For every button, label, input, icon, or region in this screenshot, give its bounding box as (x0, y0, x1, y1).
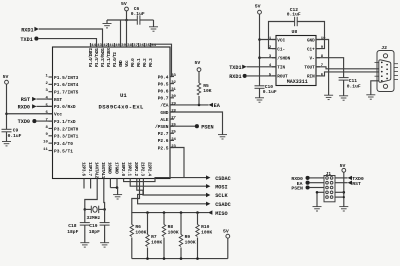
wire P2.5 pin 23 down to CSDAC row (170, 148, 184, 178)
svg-text:39: 39 (121, 44, 126, 48)
svg-text:MOSI: MOSI (215, 184, 227, 190)
node MOSI port (206, 184, 228, 190)
svg-text:TOUT: TOUT (304, 66, 315, 71)
svg-text:P3.3/INT1: P3.3/INT1 (54, 134, 79, 140)
wire P3.6 stub (83, 179, 85, 189)
ic U1 right pins 33-23 (155, 74, 177, 151)
junction rail R10 (196, 257, 199, 260)
capacitor C9 0.1uF (2, 128, 22, 140)
power 5V above MAX3311 (255, 4, 262, 86)
junction crystal left (84, 208, 87, 211)
svg-text:P0.1: P0.1 (137, 58, 142, 67)
wire RIN pin 6 to J2 (316, 72, 379, 76)
svg-text:CSADC: CSADC (215, 202, 231, 208)
node CSDAC port (206, 175, 231, 181)
wire GND pins 16 17 (110, 179, 117, 188)
node RXD1 port at MAX3311 (229, 74, 247, 80)
ground below C10 (255, 98, 264, 102)
wire EA to J1 pin3 (309, 182, 323, 184)
svg-text:U8: U8 (292, 29, 298, 35)
svg-text:ROUT: ROUT (277, 75, 288, 80)
junction VCC row (258, 38, 261, 41)
svg-text:10: 10 (321, 37, 326, 41)
svg-text:22P2.4: 22P2.4 (146, 162, 151, 176)
svg-text:R5: R5 (203, 83, 209, 89)
ground below J1 left (313, 207, 322, 211)
svg-text:EA: EA (214, 103, 221, 109)
svg-text:100K: 100K (151, 240, 162, 246)
wire TXD1 to TIN pin 4 (247, 66, 276, 68)
junction J1 pin7 (316, 191, 319, 194)
svg-text:C1-: C1- (277, 47, 285, 52)
junction rail R7 (146, 257, 149, 260)
wire 5V to /SHDN pin 3 (260, 57, 277, 59)
svg-text:25: 25 (171, 131, 176, 135)
crystal Y1 32MHz (85, 206, 105, 221)
svg-text:26: 26 (171, 124, 176, 128)
node RXD0 port at J1 (291, 176, 309, 182)
svg-text:17GND: 17GND (113, 162, 118, 174)
junction Vcc row (5, 112, 8, 115)
svg-text:P1.1/T2EX: P1.1/T2EX (107, 48, 112, 67)
svg-text:5V: 5V (3, 74, 9, 80)
node RST port at J1 (348, 181, 361, 187)
wire XTAL2 to crystal (85, 179, 97, 210)
svg-text:SCLK: SCLK (215, 193, 228, 199)
svg-text:/SHDN: /SHDN (277, 57, 290, 62)
wire GND pin 10 to ground (316, 40, 329, 96)
wire rail left drop (106, 20, 108, 24)
svg-text:P2.6: P2.6 (158, 138, 169, 144)
power 5V at J1 (340, 163, 346, 206)
svg-text:P3.1/TxD: P3.1/TxD (54, 119, 76, 125)
svg-text:41: 41 (109, 44, 114, 48)
node PSEN port at J1 (291, 185, 309, 191)
wire V- pin 8 to C11 (316, 58, 344, 78)
svg-text:PSEN: PSEN (291, 186, 303, 192)
svg-text:20P2.2: 20P2.2 (133, 162, 138, 176)
junction MISO row R7 (146, 211, 149, 214)
wire P2.1 to MOSI (130, 179, 206, 187)
svg-text:36: 36 (139, 44, 144, 48)
svg-text:P3.5/T1: P3.5/T1 (54, 148, 73, 154)
wire P2.0 to CSDAC (124, 178, 206, 182)
svg-text:37: 37 (133, 44, 138, 48)
svg-text:/PSEN: /PSEN (155, 124, 169, 130)
wire J1 pin10 stub (336, 196, 345, 198)
wire C1- loop left (269, 22, 295, 49)
power 5V above R5 (195, 60, 201, 71)
svg-text:28: 28 (171, 109, 176, 113)
svg-text:P0.6: P0.6 (158, 89, 169, 95)
ground left of C6 (103, 24, 112, 28)
svg-text:P0.0: P0.0 (131, 58, 136, 67)
svg-text:CSDAC: CSDAC (215, 176, 231, 182)
svg-text:P1.2/RxD1: P1.2/RxD1 (101, 48, 106, 67)
svg-text:P0.5: P0.5 (158, 81, 169, 87)
svg-text:U1: U1 (120, 92, 127, 99)
svg-text:MISO: MISO (215, 211, 227, 217)
wire GND pin 39 column (120, 20, 122, 47)
wire P0.3 pin34 to P0.4 pin33 (151, 44, 172, 76)
resistor R10 100K (196, 213, 213, 259)
svg-text:GND: GND (119, 60, 124, 67)
svg-text:18pF: 18pF (67, 229, 78, 235)
svg-text:100K: 100K (168, 230, 179, 236)
svg-text:MAX3311: MAX3311 (287, 79, 308, 85)
svg-text:12P3.6: 12P3.6 (80, 162, 85, 176)
svg-text:100K: 100K (185, 240, 196, 246)
svg-text:31: 31 (171, 88, 176, 92)
wire PSEN to J1 pin5 (309, 187, 323, 189)
svg-text:P2.5: P2.5 (158, 145, 169, 151)
svg-text:TIN: TIN (277, 66, 285, 71)
node TXD0 port at J1 (348, 176, 364, 182)
node EA port at J1 (297, 181, 310, 187)
capacitor C12 0.1uF (287, 7, 301, 26)
wire P2.3 to CSADC (138, 179, 206, 204)
svg-text:100K: 100K (135, 230, 146, 236)
svg-text:18P2.0: 18P2.0 (120, 162, 125, 176)
node SCLK port (206, 193, 229, 199)
wire /EA pin 29 net (170, 104, 209, 106)
svg-text:10: 10 (43, 141, 48, 145)
ic U1 bottom pins 12-22 (80, 162, 151, 179)
wire C9 to ground (6, 132, 8, 142)
svg-text:R6: R6 (135, 224, 141, 230)
connector J1 header 2x5 (324, 172, 335, 202)
wire pull-up rail (132, 258, 228, 260)
svg-text:RST: RST (54, 97, 62, 103)
svg-text:24: 24 (171, 138, 176, 142)
node CSADC port (206, 202, 231, 208)
capacitor C11 0.1uF (339, 78, 361, 96)
svg-text:TXD1: TXD1 (20, 37, 32, 43)
wire GND pin 28 to ground (170, 112, 223, 135)
ground below C19 (100, 243, 109, 247)
svg-text:RXD1: RXD1 (21, 27, 33, 33)
svg-text:ALE: ALE (160, 117, 168, 123)
ground below U1 (113, 195, 122, 199)
resistor R8 100K (162, 213, 179, 259)
svg-text:19P2.1: 19P2.1 (127, 162, 132, 176)
wire GND to ground symbol (117, 188, 119, 195)
resistor R7 100K (146, 213, 163, 259)
resistor R9 100K (179, 213, 196, 259)
wire XTAL1 to crystal (103, 179, 106, 210)
svg-text:RST: RST (21, 97, 30, 103)
junction EA and R5 (198, 104, 201, 107)
svg-text:Vcc: Vcc (125, 60, 130, 67)
node PSEN port (195, 124, 214, 130)
wire 5V to VCC pin 1 (260, 39, 277, 41)
svg-text:15XTAL1: 15XTAL1 (100, 162, 105, 179)
svg-text:29: 29 (171, 102, 176, 106)
ground below C18 (80, 243, 89, 247)
junction J1 5V (343, 191, 346, 194)
svg-text:TXD1: TXD1 (229, 65, 241, 71)
wire TXD0 to pin 7 (36, 120, 52, 122)
svg-text:V-: V- (310, 57, 315, 62)
capacitor C6 0.1uF (131, 6, 145, 25)
svg-text:43: 43 (97, 44, 102, 48)
node MISO port (208, 210, 228, 216)
ground below J2 (366, 95, 375, 99)
svg-text:P0.2: P0.2 (143, 58, 148, 67)
wire J1 pin8 stub (336, 191, 344, 193)
svg-text:R7: R7 (151, 234, 157, 240)
svg-text:DS89C4x0-ExL: DS89C4x0-ExL (99, 104, 145, 111)
wire TXD0 to J1 pin2 (336, 177, 348, 179)
capacitor C19 18pF (89, 209, 110, 242)
wire P2.2 to SCLK (137, 179, 206, 196)
svg-text:11: 11 (43, 148, 48, 152)
svg-text:P2.7: P2.7 (158, 131, 169, 137)
junction 5V rail (125, 19, 128, 22)
svg-text:R10: R10 (201, 224, 210, 230)
svg-text:21P2.3: 21P2.3 (140, 162, 145, 176)
junction rail R9 (180, 257, 183, 260)
wire 5V to Vcc pin 6 (7, 113, 53, 115)
node TXD1 port top-left (20, 37, 38, 43)
svg-text:P3.4/T0: P3.4/T0 (54, 141, 73, 147)
svg-text:P1.5/INT3: P1.5/INT3 (54, 75, 79, 81)
junction SHDN row (258, 56, 261, 59)
node RXD0 port (18, 104, 37, 110)
svg-text:23: 23 (171, 145, 176, 149)
ground below C11 (339, 96, 348, 100)
node EA port (209, 103, 221, 109)
junction rail R8 (163, 257, 166, 260)
wire RST to pin 4 (37, 98, 53, 100)
ic U1 top pins 44-34 (89, 43, 156, 67)
svg-text:30: 30 (171, 95, 176, 99)
svg-text:VCC: VCC (277, 38, 285, 43)
op-amp U8 MAX3311 transceiver (269, 29, 326, 85)
capacitor C18 18pF (67, 209, 90, 242)
ground right of C6 (149, 27, 158, 31)
svg-text:C18: C18 (68, 223, 77, 229)
svg-text:GND: GND (160, 110, 168, 116)
node RST port (21, 97, 37, 103)
wire C12 to C1+ pin 9 (297, 22, 324, 49)
resistor R5 10K (197, 72, 212, 105)
svg-text:C1+: C1+ (307, 47, 315, 52)
wire RXD1 to P1.2/RxD1 pin 42 (39, 29, 103, 47)
svg-text:P3.0/RxD: P3.0/RxD (54, 104, 76, 110)
wire RXD0 to J1 pin1 (309, 177, 323, 179)
svg-text:40: 40 (115, 44, 120, 48)
svg-text:Vcc: Vcc (54, 112, 62, 118)
wire RXD0 to pin 5 (37, 105, 53, 107)
svg-text:16GND: 16GND (107, 162, 112, 174)
svg-text:C9: C9 (13, 128, 19, 134)
svg-text:P1.0/T2: P1.0/T2 (113, 52, 118, 67)
svg-text:38: 38 (127, 44, 132, 48)
op-amp U1 microcontroller DS89C4x0 body (53, 47, 171, 179)
svg-text:14XTAL2: 14XTAL2 (94, 162, 99, 179)
svg-text:0.1uF: 0.1uF (263, 89, 277, 95)
wire P2.4 to MISO (132, 179, 209, 213)
svg-text:P1.4/INT2: P1.4/INT2 (89, 48, 94, 67)
wire RXD1 to ROUT pin 5 (247, 75, 276, 77)
svg-text:5V: 5V (255, 4, 261, 10)
ground below C9 (2, 142, 11, 146)
ic U1 left pins 1-11 (43, 74, 78, 154)
svg-text:0.1uF: 0.1uF (8, 133, 22, 139)
wire rail right drop (153, 20, 155, 27)
power 5V above U1 (121, 1, 128, 20)
svg-text:42: 42 (103, 44, 108, 48)
svg-text:13P3.7: 13P3.7 (87, 162, 92, 176)
connector J2 DB9 (375, 45, 399, 91)
ground below J1 right (339, 207, 348, 211)
svg-text:P3.2/INT0: P3.2/INT0 (54, 126, 79, 132)
svg-text:TXD0: TXD0 (18, 119, 30, 125)
wire J1 pin7 to ground (317, 192, 324, 206)
junction MISO row R9 (180, 211, 183, 214)
junction GND pins (116, 186, 119, 189)
svg-text:100K: 100K (201, 230, 212, 236)
svg-text:32MHz: 32MHz (87, 215, 101, 221)
svg-text:44: 44 (91, 44, 96, 48)
svg-text:P0.4: P0.4 (158, 74, 169, 80)
node RXD1 port top-left (21, 27, 39, 34)
wire /PSEN pin 26 net (170, 125, 195, 127)
svg-text:C19: C19 (89, 223, 98, 229)
svg-text:C11: C11 (349, 78, 358, 84)
power 5V left (3, 74, 9, 129)
svg-text:RXD1: RXD1 (229, 74, 241, 80)
svg-text:5V: 5V (195, 60, 201, 66)
svg-text:R8: R8 (168, 224, 174, 230)
svg-text:0.1uF: 0.1uF (347, 83, 361, 89)
svg-text:P0.7: P0.7 (158, 96, 169, 102)
wire TOUT pin 7 to J2 (316, 67, 379, 69)
svg-text:/EA: /EA (160, 103, 168, 109)
ground right of U1 (218, 135, 227, 139)
svg-text:10K: 10K (203, 88, 212, 94)
svg-text:PSEN: PSEN (201, 124, 213, 130)
wire Vcc pin 38 column (126, 20, 128, 47)
ground below MAX3311 GND (324, 95, 333, 99)
power 5V pull-up rail (223, 228, 230, 258)
svg-text:C10: C10 (265, 84, 274, 90)
junction crystal right (103, 208, 106, 211)
svg-text:27: 27 (171, 117, 176, 121)
svg-text:P1.7/INT5: P1.7/INT5 (54, 90, 79, 96)
junction MISO row R8 (163, 211, 166, 214)
svg-text:32: 32 (171, 81, 176, 85)
svg-text:P1.6/INT4: P1.6/INT4 (54, 82, 79, 88)
svg-text:R9: R9 (185, 234, 191, 240)
node TXD1 port at MAX3311 (229, 65, 246, 71)
junction MISO row R10 (196, 211, 199, 214)
node TXD0 port (18, 119, 37, 125)
wire TXD1 to P1.3/TxD1 pin 43 (39, 39, 97, 47)
svg-text:RIN: RIN (307, 75, 315, 80)
wire Vcc rail segment left (107, 19, 137, 21)
svg-text:RST: RST (352, 181, 361, 187)
wire rail segment right (140, 19, 154, 21)
svg-text:35: 35 (145, 44, 150, 48)
svg-text:5V: 5V (223, 228, 229, 234)
svg-text:RXD0: RXD0 (18, 104, 30, 110)
svg-text:P0.3: P0.3 (149, 58, 154, 67)
capacitor C10 0.1uF (255, 84, 277, 98)
svg-text:0.1uF: 0.1uF (131, 11, 145, 17)
wire J2 pin5 to ground (371, 81, 379, 95)
wire P3.7 stub (90, 179, 92, 189)
svg-text:P1.3/TxD1: P1.3/TxD1 (95, 48, 100, 67)
wire RST to J1 pin4 (336, 182, 348, 184)
svg-text:0.1uF: 0.1uF (287, 12, 301, 18)
svg-text:5V: 5V (121, 1, 127, 7)
svg-text:18pF: 18pF (89, 229, 100, 235)
svg-text:GND: GND (307, 38, 315, 43)
resistor R6 100K (130, 213, 147, 259)
